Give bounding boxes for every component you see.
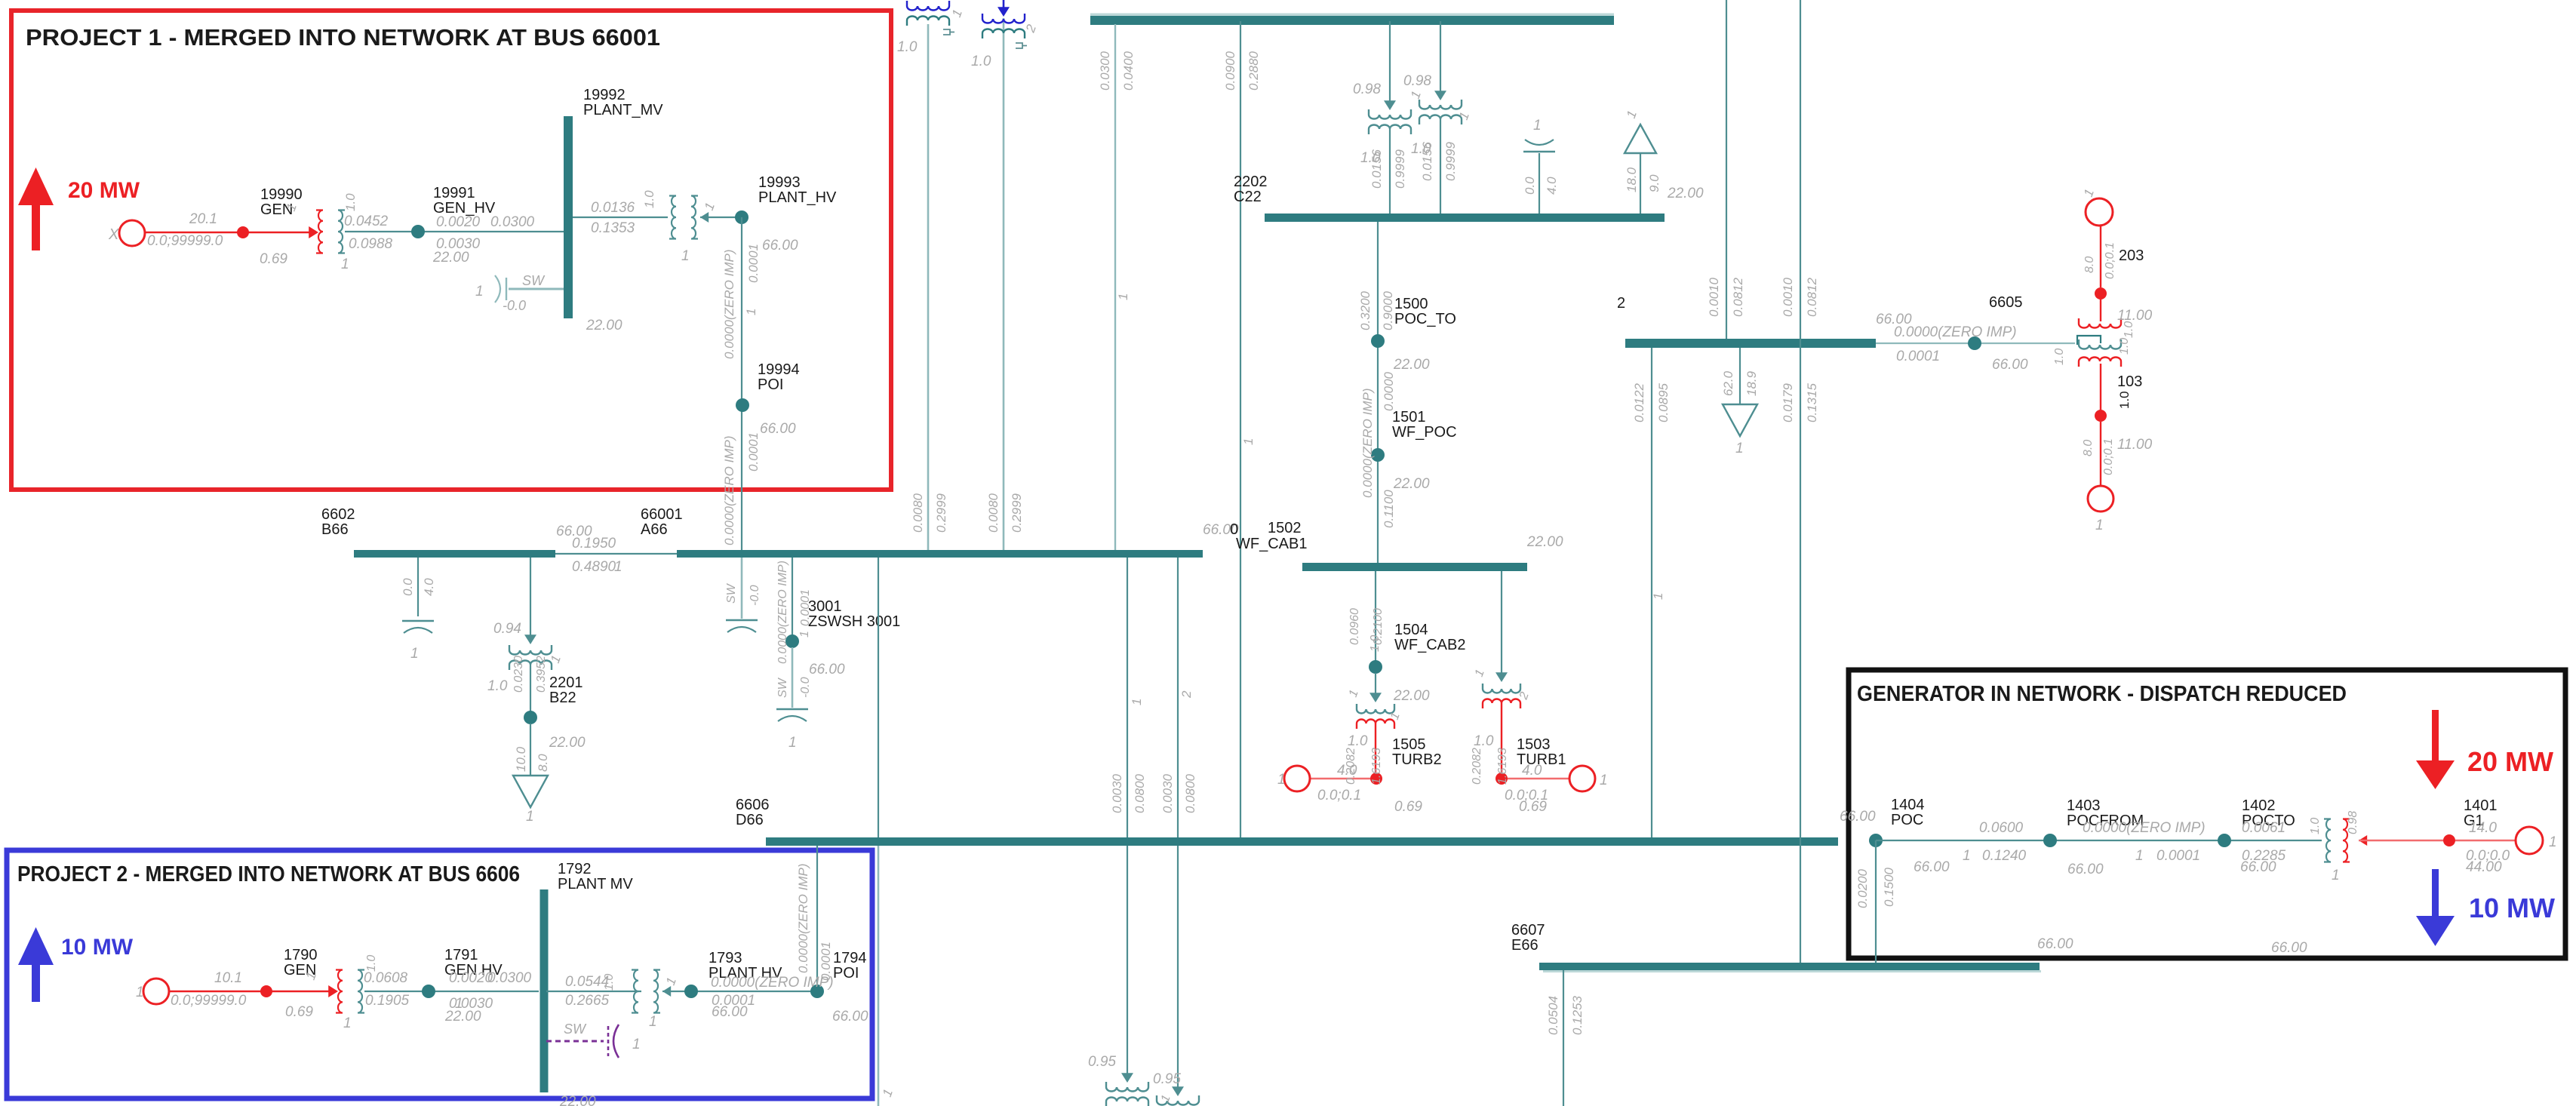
svg-text:-0.0: -0.0 [503, 298, 526, 313]
svg-text:0: 0 [1230, 521, 1238, 538]
svg-text:1: 1 [475, 284, 484, 300]
svg-text:0.69: 0.69 [1394, 799, 1422, 815]
svg-text:1: 1 [788, 735, 797, 751]
svg-text:20 MW: 20 MW [2467, 746, 2553, 777]
svg-text:0.0156: 0.0156 [1369, 149, 1384, 189]
svg-text:2201: 2201 [549, 674, 583, 691]
svg-text:D66: D66 [736, 812, 764, 828]
svg-text:6607: 6607 [1511, 922, 1545, 939]
svg-text:0.0230: 0.0230 [512, 656, 525, 693]
svg-text:3001: 3001 [808, 598, 842, 615]
svg-text:0.0;99999.0: 0.0;99999.0 [147, 233, 223, 249]
svg-text:0.0000(ZERO IMP): 0.0000(ZERO IMP) [1894, 324, 2017, 340]
svg-text:B66: B66 [321, 521, 349, 538]
svg-text:0.0000(ZERO IMP): 0.0000(ZERO IMP) [722, 436, 736, 546]
svg-text:WF_POC: WF_POC [1392, 424, 1457, 441]
svg-text:ZSWSH 3001: ZSWSH 3001 [808, 613, 900, 630]
svg-text:0.0608: 0.0608 [364, 970, 408, 986]
svg-text:1.0: 1.0 [642, 190, 656, 208]
svg-text:0.98: 0.98 [1403, 73, 1431, 89]
svg-text:10.0: 10.0 [514, 746, 528, 772]
svg-text:1.6193: 1.6193 [1370, 748, 1383, 785]
svg-text:1: 1 [614, 559, 622, 575]
svg-text:0.0122: 0.0122 [1632, 382, 1646, 422]
svg-text:0.1253: 0.1253 [1570, 995, 1585, 1035]
svg-text:1402: 1402 [2242, 797, 2276, 814]
svg-text:66.00: 66.00 [760, 421, 796, 437]
svg-text:66.00: 66.00 [1992, 357, 2028, 373]
svg-text:22.00: 22.00 [444, 1009, 481, 1025]
svg-text:0.2999: 0.2999 [934, 493, 948, 533]
svg-text:0.3952: 0.3952 [535, 656, 548, 693]
svg-text:0.0030: 0.0030 [1110, 773, 1124, 813]
svg-text:0.0001: 0.0001 [746, 432, 761, 472]
svg-text:1500: 1500 [1394, 296, 1428, 312]
svg-text:8.0: 8.0 [2082, 440, 2095, 456]
svg-text:11.00: 11.00 [2117, 308, 2153, 324]
svg-text:1.0: 1.0 [971, 54, 991, 69]
svg-text:22.00: 22.00 [586, 318, 622, 333]
svg-text:1.0: 1.0 [2053, 349, 2066, 365]
svg-text:1404: 1404 [1891, 797, 1925, 813]
svg-text:1503: 1503 [1517, 736, 1551, 753]
svg-text:0.0960: 0.0960 [1348, 608, 1361, 645]
svg-text:0.2880: 0.2880 [1247, 51, 1261, 91]
svg-text:1: 1 [2549, 834, 2557, 850]
svg-text:6605: 6605 [1989, 294, 2023, 311]
svg-text:19990: 19990 [260, 186, 303, 203]
svg-text:0.0000(ZERO IMP): 0.0000(ZERO IMP) [776, 561, 789, 664]
svg-text:10 MW: 10 MW [2469, 892, 2555, 923]
svg-text:0.0300: 0.0300 [1098, 51, 1112, 91]
svg-text:2: 2 [1617, 295, 1625, 312]
svg-text:0.0;0.1: 0.0;0.1 [1317, 788, 1361, 803]
svg-text:203: 203 [2119, 247, 2144, 264]
svg-text:0.0;0.1: 0.0;0.1 [2104, 242, 2116, 279]
svg-text:14.0: 14.0 [2469, 820, 2497, 836]
svg-text:19993: 19993 [758, 174, 801, 191]
svg-text:TURB2: TURB2 [1392, 751, 1442, 768]
svg-text:0.4890: 0.4890 [572, 559, 616, 575]
svg-text:1501: 1501 [1392, 409, 1426, 426]
svg-text:0.69: 0.69 [285, 1004, 313, 1020]
svg-text:22.00: 22.00 [1393, 688, 1430, 704]
svg-text:0.0001: 0.0001 [746, 244, 761, 283]
svg-text:1.0: 1.0 [1348, 733, 1368, 749]
svg-text:8.0: 8.0 [536, 754, 550, 772]
svg-text:0.0800: 0.0800 [1133, 773, 1147, 813]
svg-text:0.9000: 0.9000 [1381, 290, 1395, 330]
svg-text:2202: 2202 [1234, 174, 1268, 190]
svg-text:0.0200: 0.0200 [1855, 868, 1870, 908]
svg-text:0.0179: 0.0179 [1781, 382, 1795, 422]
svg-text:0.0000(ZERO IMP): 0.0000(ZERO IMP) [796, 864, 810, 974]
svg-text:0.0080: 0.0080 [986, 493, 1001, 533]
svg-text:66.00: 66.00 [809, 662, 845, 677]
svg-text:0.1315: 0.1315 [1805, 382, 1819, 422]
svg-text:1.0: 1.0 [2309, 818, 2322, 834]
svg-text:44.00: 44.00 [2466, 859, 2502, 875]
svg-text:0.0812: 0.0812 [1805, 277, 1819, 317]
svg-text:1.0: 1.0 [365, 955, 378, 972]
svg-text:1: 1 [744, 309, 758, 315]
svg-text:0.0;99999.0: 0.0;99999.0 [171, 993, 247, 1009]
svg-text:0.94: 0.94 [493, 621, 521, 637]
svg-text:4.0: 4.0 [422, 578, 436, 596]
svg-text:0.1240: 0.1240 [1982, 848, 2027, 864]
svg-text:0.1905: 0.1905 [365, 993, 410, 1009]
svg-text:0.0452: 0.0452 [344, 214, 389, 229]
svg-text:C22: C22 [1234, 189, 1262, 205]
svg-text:POI: POI [758, 376, 783, 393]
svg-text:1: 1 [1277, 772, 1286, 788]
svg-text:22.00: 22.00 [1526, 534, 1563, 550]
svg-text:1790: 1790 [284, 947, 318, 963]
svg-text:19992: 19992 [583, 87, 626, 103]
svg-text:0.0000(ZERO IMP): 0.0000(ZERO IMP) [722, 250, 736, 360]
svg-text:4.0: 4.0 [1545, 177, 1559, 195]
svg-text:B22: B22 [549, 690, 576, 706]
svg-text:0.0001: 0.0001 [799, 589, 812, 626]
svg-text:6602: 6602 [321, 506, 355, 523]
svg-text:PLANT_HV: PLANT_HV [758, 189, 837, 206]
svg-text:1.0: 1.0 [897, 39, 918, 55]
svg-text:66.00: 66.00 [2067, 862, 2104, 877]
svg-text:0.0600: 0.0600 [1979, 820, 2024, 836]
svg-text:10 MW: 10 MW [61, 935, 134, 960]
svg-text:66.00: 66.00 [1914, 859, 1950, 875]
svg-text:66.00: 66.00 [2271, 940, 2307, 956]
svg-text:0.0136: 0.0136 [591, 200, 635, 216]
svg-text:1: 1 [632, 1037, 641, 1052]
svg-text:1: 1 [681, 248, 690, 264]
svg-text:SW: SW [564, 1022, 587, 1037]
svg-text:0.0988: 0.0988 [349, 236, 393, 252]
svg-text:0.1353: 0.1353 [591, 220, 635, 236]
svg-text:0.69: 0.69 [260, 251, 287, 267]
svg-text:1.0: 1.0 [343, 193, 358, 211]
svg-text:0.0000: 0.0000 [1382, 371, 1396, 411]
svg-text:10.1: 10.1 [214, 970, 242, 986]
svg-text:20.1: 20.1 [189, 211, 217, 227]
svg-text:1: 1 [1735, 441, 1744, 456]
svg-text:1: 1 [136, 985, 144, 1000]
svg-text:0.98: 0.98 [1353, 81, 1381, 97]
svg-text:1794: 1794 [833, 950, 867, 966]
svg-text:0.0156: 0.0156 [1420, 141, 1434, 181]
svg-text:0.0400: 0.0400 [1121, 51, 1136, 91]
svg-text:18.0: 18.0 [1625, 167, 1639, 192]
svg-text:18.9: 18.9 [1744, 370, 1759, 396]
svg-text:1: 1 [1130, 699, 1144, 705]
svg-text:PLANT MV: PLANT MV [558, 876, 633, 892]
svg-text:6606: 6606 [736, 797, 770, 813]
svg-text:1: 1 [1651, 593, 1665, 600]
svg-text:0.98: 0.98 [2347, 811, 2359, 834]
svg-text:66.00: 66.00 [762, 238, 798, 253]
svg-text:1: 1 [2135, 848, 2144, 864]
svg-text:1: 1 [1241, 438, 1256, 445]
svg-text:0.0: 0.0 [1523, 177, 1537, 195]
svg-text:1: 1 [2095, 518, 2104, 533]
svg-text:SW: SW [522, 273, 546, 288]
svg-text:POC_TO: POC_TO [1394, 311, 1456, 327]
svg-text:POI: POI [833, 965, 859, 982]
svg-text:19991: 19991 [433, 185, 475, 201]
svg-text:0.2082: 0.2082 [1345, 748, 1357, 785]
svg-text:1: 1 [1533, 118, 1542, 134]
svg-text:1: 1 [526, 809, 534, 825]
svg-text:0.0812: 0.0812 [1731, 277, 1745, 317]
svg-text:22.00: 22.00 [549, 735, 586, 751]
svg-text:66001: 66001 [641, 506, 683, 523]
svg-text:0.0504: 0.0504 [1546, 996, 1560, 1035]
svg-text:1793: 1793 [709, 950, 742, 966]
svg-text:22.00: 22.00 [559, 1094, 596, 1106]
svg-text:22.00: 22.00 [1393, 476, 1430, 492]
svg-text:0.0080: 0.0080 [911, 493, 925, 533]
svg-text:0.0000(ZERO IMP): 0.0000(ZERO IMP) [2083, 820, 2206, 836]
svg-text:1403: 1403 [2067, 797, 2101, 814]
svg-text:0.0010: 0.0010 [1781, 277, 1795, 317]
svg-text:19994: 19994 [758, 361, 800, 378]
svg-text:103: 103 [2117, 373, 2142, 390]
svg-text:1: 1 [649, 1014, 657, 1030]
svg-text:1: 1 [341, 257, 349, 272]
svg-text:66.00: 66.00 [712, 1004, 748, 1020]
svg-text:66.00: 66.00 [2240, 859, 2276, 875]
svg-text:1: 1 [1116, 293, 1130, 300]
svg-text:1504: 1504 [1394, 622, 1428, 638]
svg-text:22.00: 22.00 [1393, 357, 1430, 373]
svg-text:E66: E66 [1511, 937, 1539, 954]
svg-text:1505: 1505 [1392, 736, 1426, 753]
svg-text:0.0020: 0.0020 [436, 214, 481, 230]
svg-text:1792: 1792 [558, 861, 592, 877]
svg-text:1.0: 1.0 [2118, 338, 2131, 355]
svg-text:0.0: 0.0 [401, 578, 415, 596]
svg-text:1: 1 [343, 1015, 352, 1031]
svg-text:0.0300: 0.0300 [487, 970, 532, 986]
svg-text:8.0: 8.0 [2083, 257, 2096, 273]
svg-text:66.00: 66.00 [1840, 809, 1876, 825]
svg-text:22.00: 22.00 [432, 250, 469, 266]
svg-text:0.0010: 0.0010 [1707, 277, 1721, 317]
svg-text:0.1950: 0.1950 [572, 536, 616, 551]
svg-text:0.2082: 0.2082 [1471, 748, 1483, 785]
svg-text:0.9999: 0.9999 [1393, 149, 1407, 189]
svg-text:PROJECT 1 - MERGED INTO NETWOR: PROJECT 1 - MERGED INTO NETWORK AT BUS 6… [26, 24, 660, 51]
svg-text:1.0: 1.0 [487, 678, 508, 694]
svg-text:9.0: 9.0 [1647, 174, 1661, 192]
svg-text:1: 1 [1963, 848, 1971, 864]
svg-text:WF_CAB2: WF_CAB2 [1394, 637, 1465, 653]
svg-text:0.0061: 0.0061 [2242, 820, 2286, 836]
svg-text:0.0020: 0.0020 [449, 970, 493, 986]
svg-text:-0.0: -0.0 [799, 677, 812, 698]
svg-text:66.00: 66.00 [2037, 936, 2073, 952]
svg-text:GENERATOR IN NETWORK - DISPATC: GENERATOR IN NETWORK - DISPATCH REDUCED [1857, 682, 2347, 706]
svg-text:0.0001: 0.0001 [819, 942, 833, 981]
svg-text:PROJECT 2 - MERGED INTO NETWOR: PROJECT 2 - MERGED INTO NETWORK AT BUS 6… [17, 862, 520, 886]
svg-text:1791: 1791 [444, 947, 478, 963]
svg-text:0.0030: 0.0030 [1160, 773, 1175, 813]
svg-text:0.0900: 0.0900 [1223, 51, 1237, 91]
svg-text:0.3200: 0.3200 [1358, 290, 1373, 330]
svg-text:1.0: 1.0 [2123, 321, 2135, 338]
svg-text:1.6193: 1.6193 [1496, 748, 1509, 785]
svg-text:0.1100: 0.1100 [1382, 490, 1396, 528]
svg-text:2: 2 [1179, 690, 1194, 699]
svg-text:0.69: 0.69 [1519, 799, 1547, 815]
svg-text:1: 1 [1600, 773, 1608, 788]
svg-text:1502: 1502 [1268, 520, 1302, 536]
svg-text:1: 1 [410, 646, 419, 662]
svg-text:1.0: 1.0 [2117, 391, 2132, 409]
svg-text:0.95: 0.95 [1088, 1054, 1116, 1070]
svg-text:0.0001: 0.0001 [1896, 349, 1940, 364]
svg-text:1.0: 1.0 [1474, 733, 1494, 749]
svg-text:POC: POC [1891, 812, 1923, 828]
svg-text:0.95: 0.95 [1153, 1071, 1181, 1087]
svg-text:1.0: 1.0 [1369, 635, 1382, 652]
svg-text:0.2665: 0.2665 [565, 993, 610, 1009]
svg-text:11.00: 11.00 [2117, 437, 2153, 453]
svg-text:PLANT_MV: PLANT_MV [583, 102, 663, 118]
svg-text:0.0895: 0.0895 [1656, 382, 1671, 422]
svg-text:A66: A66 [641, 521, 668, 538]
svg-text:0.2999: 0.2999 [1010, 493, 1024, 533]
svg-text:1: 1 [2332, 868, 2340, 883]
svg-text:66.00: 66.00 [832, 1009, 868, 1025]
svg-text:22.00: 22.00 [1667, 186, 1704, 201]
svg-text:0.0;0.1: 0.0;0.1 [2102, 438, 2115, 475]
svg-text:62.0: 62.0 [1721, 370, 1735, 396]
svg-text:0.0000(ZERO IMP): 0.0000(ZERO IMP) [1360, 389, 1375, 499]
svg-text:0.0300: 0.0300 [490, 214, 535, 230]
svg-text:20 MW: 20 MW [68, 178, 140, 203]
svg-text:1401: 1401 [2464, 797, 2498, 814]
svg-text:1.0: 1.0 [603, 974, 616, 991]
svg-text:0.9999: 0.9999 [1443, 141, 1458, 181]
svg-text:1: 1 [798, 631, 811, 637]
svg-text:X: X [108, 226, 119, 243]
svg-text:0.1500: 0.1500 [1882, 867, 1896, 907]
svg-text:SW: SW [776, 677, 789, 698]
svg-text:0.0001: 0.0001 [2156, 848, 2200, 864]
svg-text:0.0800: 0.0800 [1183, 773, 1197, 813]
svg-text:0.0000(ZERO IMP): 0.0000(ZERO IMP) [711, 975, 834, 991]
svg-text:4.0: 4.0 [1522, 763, 1542, 779]
svg-text:SW: SW [725, 582, 738, 604]
svg-text:WF_CAB1: WF_CAB1 [1236, 536, 1307, 552]
svg-text:-0.0: -0.0 [749, 585, 761, 606]
